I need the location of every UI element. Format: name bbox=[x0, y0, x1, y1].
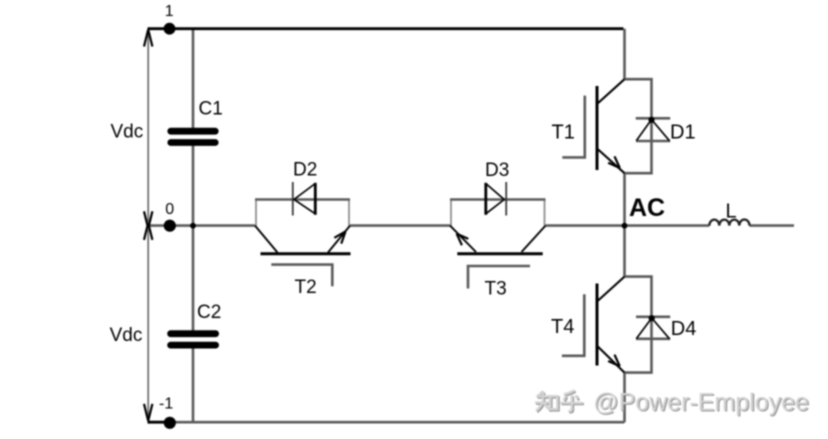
svg-text:T1: T1 bbox=[552, 121, 575, 143]
svg-text:AC: AC bbox=[629, 194, 665, 222]
svg-text:D3: D3 bbox=[485, 160, 509, 181]
svg-text:D2: D2 bbox=[293, 159, 317, 180]
svg-text:Vdc: Vdc bbox=[111, 122, 144, 143]
svg-text:C1: C1 bbox=[199, 99, 223, 120]
svg-text:L: L bbox=[726, 200, 737, 222]
svg-text:0: 0 bbox=[165, 201, 174, 218]
svg-text:T3: T3 bbox=[485, 278, 507, 299]
svg-text:-1: -1 bbox=[159, 396, 173, 413]
svg-text:@Power-Employee: @Power-Employee bbox=[593, 389, 809, 417]
svg-text:D1: D1 bbox=[670, 121, 696, 143]
svg-text:1: 1 bbox=[165, 3, 174, 20]
svg-text:Vdc: Vdc bbox=[110, 325, 143, 346]
svg-text:D4: D4 bbox=[671, 318, 697, 340]
svg-text:T2: T2 bbox=[295, 277, 317, 298]
svg-text:T4: T4 bbox=[551, 316, 574, 338]
svg-text:C2: C2 bbox=[197, 302, 221, 323]
